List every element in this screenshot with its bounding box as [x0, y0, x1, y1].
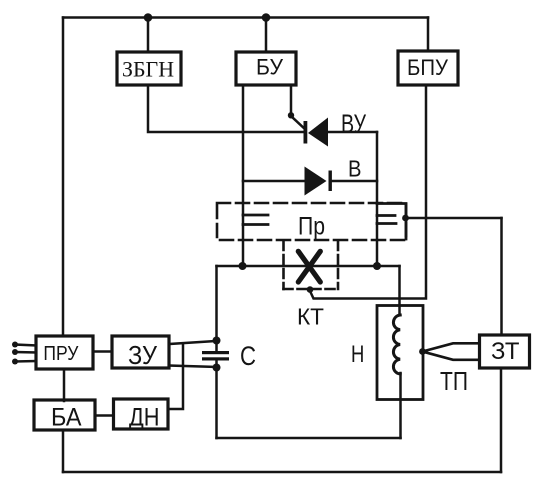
block БА [34, 400, 95, 430]
node top junction 2 [262, 13, 271, 22]
svg-text:ДН: ДН [129, 404, 160, 432]
thermocouple ТП [423, 343, 480, 360]
svg-text:ЗБГН: ЗБГН [122, 57, 174, 82]
switch КТ cross [298, 251, 320, 282]
bracket right of Пр [377, 204, 406, 240]
block ДН [114, 399, 169, 429]
connector prongs right [377, 216, 396, 224]
wire БПУ down to КТ control [310, 85, 426, 299]
capacitor С [202, 351, 229, 361]
svg-text:ЗУ: ЗУ [128, 340, 157, 370]
wire ЗУ upper output [169, 341, 217, 344]
wire БУ right leg to gate [290, 85, 293, 112]
wire ВУ output [328, 131, 377, 134]
inductor Н coil [393, 315, 400, 374]
input lines with nodes [12, 342, 36, 365]
svg-text:Н: Н [351, 341, 364, 368]
svg-text:КТ: КТ [297, 304, 324, 330]
wire capacitor rail upper [215, 266, 218, 351]
wire loop bottom [217, 437, 401, 440]
wire БУ left leg down to bus [242, 85, 245, 266]
node КТ control [307, 286, 314, 293]
thyristor ВУ [288, 112, 328, 146]
block БУ [236, 52, 296, 85]
wire ЗУ lower output [169, 366, 217, 368]
wire БА to ДН [95, 414, 113, 417]
wire ДН feedback up [168, 345, 183, 410]
node capacitor top [213, 337, 221, 345]
block ЗТ [480, 335, 530, 368]
wire right rail lower [500, 368, 503, 472]
svg-text:В: В [348, 156, 362, 182]
wire Пр output to right rail [406, 217, 502, 220]
wire БПУ top stub [427, 18, 430, 52]
converter Пр dashed box [217, 203, 406, 240]
wire right rail upper [500, 218, 503, 335]
wire top bus [63, 16, 428, 19]
svg-text:ВУ: ВУ [341, 109, 366, 139]
wire bottom bus [63, 471, 501, 474]
node bus left junction [239, 262, 247, 270]
svg-text:ПРУ: ПРУ [43, 343, 78, 365]
svg-text:ТП: ТП [440, 368, 468, 396]
diode В [305, 167, 332, 196]
wire ПРУ to БА [63, 369, 66, 401]
wire left rail [62, 18, 65, 337]
node ТП junction [419, 348, 426, 355]
svg-text:БУ: БУ [256, 55, 284, 80]
inductor Н box [377, 306, 423, 400]
connector prongs left [243, 215, 268, 225]
node Пр output [402, 215, 409, 222]
wire ЗБГН top stub [147, 18, 150, 53]
block БПУ [398, 51, 458, 85]
wire commutation bus [217, 265, 400, 268]
wire right vertical to bus [376, 132, 379, 266]
node top junction 1 [144, 13, 153, 22]
svg-text:ЗТ: ЗТ [491, 338, 520, 365]
block ЗУ [112, 336, 169, 368]
wire capacitor rail lower [215, 361, 218, 439]
svg-text:С: С [240, 341, 256, 371]
switch КТ dashed box [284, 241, 339, 289]
node bus right junction [373, 262, 381, 270]
wire ЗБГН to ВУ [148, 85, 304, 132]
block ПРУ [36, 336, 93, 369]
svg-text:БПУ: БПУ [407, 55, 449, 80]
wire В anode [243, 180, 305, 183]
wire bus corner down to coil [398, 266, 401, 315]
svg-text:БА: БА [51, 404, 82, 432]
block ЗБГН [117, 52, 181, 85]
wire ПРУ to ЗУ [93, 350, 112, 353]
node capacitor bottom [213, 364, 221, 372]
svg-text:Пр: Пр [298, 212, 325, 240]
wire БА down to bottom bus [62, 430, 65, 472]
wire loop right up to coil [399, 373, 402, 438]
wire В cathode [332, 180, 377, 183]
wire БУ top stub [265, 18, 268, 53]
